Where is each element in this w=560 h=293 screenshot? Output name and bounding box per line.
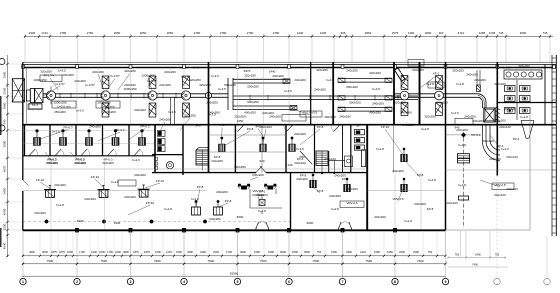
svg-text:605: 605 xyxy=(341,31,346,35)
toilet stalls xyxy=(505,80,531,120)
staircase 2 xyxy=(300,151,328,174)
svg-text:1: 1 xyxy=(22,280,24,284)
svg-text:FP-6.3: FP-6.3 xyxy=(115,128,124,132)
svg-text:320x200: 320x200 xyxy=(494,82,506,86)
svg-text:6000: 6000 xyxy=(240,250,246,254)
right edge hatched wall xyxy=(552,55,556,236)
double door bottom wall 2 xyxy=(338,222,352,231)
column dots on dashed line xyxy=(45,220,207,223)
svg-text:FP-8: FP-8 xyxy=(342,177,349,181)
svg-text:1560: 1560 xyxy=(2,87,6,94)
svg-text:320x250: 320x250 xyxy=(234,115,246,119)
svg-text:h+2.8: h+2.8 xyxy=(458,143,466,147)
wall x350 xyxy=(350,125,352,173)
svg-text:h+2.8: h+2.8 xyxy=(376,147,384,151)
vertical pipe with symbols right wing xyxy=(446,132,481,228)
svg-text:750: 750 xyxy=(428,250,433,254)
branch ducts with grille ends xyxy=(228,78,418,110)
svg-text:3050: 3050 xyxy=(114,31,121,35)
svg-text:1500: 1500 xyxy=(213,250,219,254)
svg-text:h+2.8: h+2.8 xyxy=(56,203,64,207)
right lower construction lines xyxy=(367,173,445,230)
svg-text:2440: 2440 xyxy=(297,31,304,35)
svg-text:240x200: 240x200 xyxy=(314,88,326,92)
svg-text:h+3.5: h+3.5 xyxy=(326,78,334,82)
svg-text:240x200: 240x200 xyxy=(206,101,218,105)
svg-text:240x200: 240x200 xyxy=(466,73,478,77)
corridor main supply duct xyxy=(43,93,209,99)
svg-text:2980: 2980 xyxy=(2,102,6,109)
svg-text:2400: 2400 xyxy=(200,250,206,254)
svg-text:240x200: 240x200 xyxy=(400,111,412,115)
top dimension numbers xyxy=(29,31,548,35)
svg-text:1980: 1980 xyxy=(2,71,6,78)
svg-text:250x200: 250x200 xyxy=(54,110,66,114)
svg-text:240x120: 240x120 xyxy=(324,157,336,161)
svg-text:240x200: 240x200 xyxy=(102,161,114,165)
svg-text:240x200: 240x200 xyxy=(159,83,171,87)
building top exterior wall xyxy=(23,62,556,67)
lower area dashed line xyxy=(23,221,290,223)
svg-text:FP-10: FP-10 xyxy=(36,178,45,182)
svg-text:1205: 1205 xyxy=(489,31,496,35)
svg-text:h+2.8: h+2.8 xyxy=(520,115,528,119)
svg-text:240x200: 240x200 xyxy=(412,68,424,72)
inline duct fan fan 2 xyxy=(101,76,110,117)
svg-text:h+2.8: h+2.8 xyxy=(421,127,429,131)
svg-text:240x200: 240x200 xyxy=(252,173,264,177)
boxed labels xyxy=(28,60,514,208)
svg-text:2: 2 xyxy=(76,280,78,284)
svg-text:6000: 6000 xyxy=(307,221,314,225)
svg-text:2780: 2780 xyxy=(194,31,201,35)
svg-text:240x200: 240x200 xyxy=(456,128,468,132)
svg-text:320x250: 320x250 xyxy=(199,83,211,87)
elbow duct corridor right wing xyxy=(446,94,487,108)
svg-text:240x120: 240x120 xyxy=(489,157,501,161)
svg-text:4060: 4060 xyxy=(520,31,527,35)
wall C lower xyxy=(290,173,292,231)
svg-text:240x200: 240x200 xyxy=(46,161,58,165)
lower-left construction lines xyxy=(51,158,105,229)
svg-text:2690: 2690 xyxy=(425,31,432,35)
svg-text:h+3.57: h+3.57 xyxy=(110,74,120,78)
partition light mid xyxy=(261,125,263,173)
vertical drop above duct end xyxy=(477,70,481,92)
svg-text:240x200: 240x200 xyxy=(54,183,66,187)
svg-text:3050: 3050 xyxy=(167,31,174,35)
left exterior wall xyxy=(23,62,29,230)
minor bottom dimension numbers xyxy=(29,250,433,254)
mid room shelf lines xyxy=(209,135,287,152)
ceiling diffusers lower mid room xyxy=(238,184,277,208)
inline duct fan fan 4 xyxy=(181,76,190,117)
svg-text:240x200: 240x200 xyxy=(339,115,351,119)
main wall A xyxy=(208,62,210,172)
top dimension line with ticks xyxy=(24,34,553,38)
room row light lines xyxy=(23,131,155,144)
svg-text:500x320: 500x320 xyxy=(346,85,358,89)
svg-text:FP-8: FP-8 xyxy=(317,125,324,129)
svg-text:FP-4: FP-4 xyxy=(513,137,520,141)
mid horizontal wall xyxy=(152,172,367,174)
floor units lower-mid xyxy=(192,200,223,215)
doors on corridor wall xyxy=(235,125,340,132)
svg-text:2780: 2780 xyxy=(247,31,254,35)
svg-text:1440: 1440 xyxy=(269,69,276,73)
svg-text:6530: 6530 xyxy=(304,250,310,254)
corridor construction lines xyxy=(77,68,289,124)
branch drop with fan at x=439 xyxy=(435,76,444,116)
svg-text:240x120: 240x120 xyxy=(494,193,506,197)
diagonal fan unit xyxy=(395,68,406,81)
svg-text:4940: 4940 xyxy=(2,242,6,249)
svg-text:h+2.8: h+2.8 xyxy=(164,207,172,211)
svg-text:4: 4 xyxy=(183,280,185,284)
svg-text:240x120: 240x120 xyxy=(504,107,516,111)
svg-text:320x250: 320x250 xyxy=(424,115,436,119)
right wing bottom extension lines xyxy=(461,231,491,257)
svg-text:940: 940 xyxy=(2,119,6,124)
svg-text:4870: 4870 xyxy=(2,165,6,172)
svg-text:240x200: 240x200 xyxy=(436,101,448,105)
svg-text:1744: 1744 xyxy=(41,31,48,35)
svg-text:7400: 7400 xyxy=(472,263,478,267)
svg-text:4854: 4854 xyxy=(365,31,372,35)
svg-text:2980: 2980 xyxy=(2,140,6,147)
svg-text:FP-6.3: FP-6.3 xyxy=(471,133,480,137)
svg-text:240x200: 240x200 xyxy=(62,73,74,77)
svg-text:1700: 1700 xyxy=(226,250,232,254)
annotation text labels xyxy=(32,64,530,225)
svg-text:320x250: 320x250 xyxy=(244,74,256,78)
svg-text:L=3.5: L=3.5 xyxy=(58,69,66,73)
svg-text:1500: 1500 xyxy=(331,250,337,254)
svg-text:240x120: 240x120 xyxy=(506,187,518,191)
svg-text:FP-10: FP-10 xyxy=(146,201,155,205)
svg-text:1500: 1500 xyxy=(176,250,182,254)
svg-text:2400: 2400 xyxy=(346,250,352,254)
svg-text:JY: JY xyxy=(356,124,360,128)
svg-text:400: 400 xyxy=(439,31,444,35)
svg-text:VRV-2.5: VRV-2.5 xyxy=(494,183,505,187)
svg-text:1500: 1500 xyxy=(67,250,73,254)
svg-text:XF-1: XF-1 xyxy=(32,103,39,107)
fan coil units mid rooms xyxy=(219,137,296,152)
double door bottom wall 1 xyxy=(255,222,269,231)
branch drop with fan at x=404.5 xyxy=(400,76,409,116)
svg-text:240x200: 240x200 xyxy=(346,69,358,73)
bottom exterior wall xyxy=(23,229,446,231)
svg-text:1875: 1875 xyxy=(59,250,65,254)
duct junction damper xyxy=(205,92,211,98)
svg-text:1050: 1050 xyxy=(237,119,244,123)
svg-text:7500: 7500 xyxy=(260,259,267,263)
wall at grid 7 xyxy=(342,125,344,173)
svg-text:7: 7 xyxy=(342,280,344,284)
svg-text:5000: 5000 xyxy=(237,215,244,219)
svg-text:9: 9 xyxy=(445,280,447,284)
lower area ceiling line xyxy=(23,169,367,191)
svg-text:1500: 1500 xyxy=(292,250,298,254)
svg-text:2575: 2575 xyxy=(392,31,399,35)
svg-text:FP-8: FP-8 xyxy=(247,127,254,131)
svg-text:h+3.5: h+3.5 xyxy=(296,147,304,151)
svg-text:4295: 4295 xyxy=(187,250,193,254)
svg-text:1490: 1490 xyxy=(408,31,415,35)
svg-text:400x250: 400x250 xyxy=(244,111,256,115)
svg-text:4500: 4500 xyxy=(2,208,6,215)
svg-text:240x200: 240x200 xyxy=(216,190,228,194)
svg-text:h+3.8: h+3.8 xyxy=(456,82,464,86)
air handling unit AHU-1 xyxy=(27,89,44,109)
svg-text:h+3.57: h+3.57 xyxy=(85,83,95,87)
inline duct fan fan 3 xyxy=(148,76,157,117)
svg-text:240x200: 240x200 xyxy=(392,169,404,173)
svg-text:1878: 1878 xyxy=(144,250,150,254)
room doors xyxy=(29,149,143,156)
svg-text:240x200: 240x200 xyxy=(34,211,46,215)
svg-text:FP-6.3: FP-6.3 xyxy=(140,125,149,129)
svg-text:240x120: 240x120 xyxy=(446,201,458,205)
svg-text:500x250: 500x250 xyxy=(224,83,236,87)
svg-text:8: 8 xyxy=(394,280,396,284)
svg-text:240x200: 240x200 xyxy=(414,202,426,206)
svg-text:240x200: 240x200 xyxy=(346,187,358,191)
svg-text:5: 5 xyxy=(237,280,239,284)
svg-text:240x200: 240x200 xyxy=(260,125,272,129)
svg-text:240x200: 240x200 xyxy=(372,102,384,106)
column marks on top wall xyxy=(22,65,556,69)
small room partition walls xyxy=(23,125,155,156)
svg-text:XF-1 P=...: XF-1 P=... xyxy=(43,74,57,78)
equipment lower mid xyxy=(250,194,282,214)
svg-text:1500: 1500 xyxy=(2,223,6,230)
svg-text:1500: 1500 xyxy=(413,250,419,254)
svg-text:1500: 1500 xyxy=(254,250,260,254)
left dimension numbers xyxy=(2,71,6,249)
svg-text:81960: 81960 xyxy=(230,272,239,276)
stairwell 2 walls xyxy=(315,125,329,173)
svg-text:320x200: 320x200 xyxy=(494,119,506,123)
svg-text:8236: 8236 xyxy=(280,250,286,254)
svg-text:FP-8: FP-8 xyxy=(417,173,424,177)
svg-text:1285: 1285 xyxy=(479,31,486,35)
svg-text:3936: 3936 xyxy=(114,221,121,225)
lavatory counter with basins xyxy=(504,70,542,79)
svg-text:h+2.6: h+2.6 xyxy=(52,130,60,134)
svg-text:1500: 1500 xyxy=(374,250,380,254)
svg-text:240x200: 240x200 xyxy=(464,115,476,119)
light partition below fan room xyxy=(393,125,395,173)
svg-text:240x120: 240x120 xyxy=(482,139,494,143)
svg-text:3406: 3406 xyxy=(29,31,36,35)
svg-text:2400: 2400 xyxy=(475,253,481,257)
svg-text:400x250: 400x250 xyxy=(369,111,381,115)
svg-text:7500: 7500 xyxy=(312,259,319,263)
wall D xyxy=(366,125,368,231)
svg-text:VRV-2.5: VRV-2.5 xyxy=(346,201,357,205)
svg-text:1000x250: 1000x250 xyxy=(141,74,155,78)
svg-text:h+2.8: h+2.8 xyxy=(428,178,436,182)
svg-text:500x320: 500x320 xyxy=(349,101,361,105)
wall B upper xyxy=(234,125,236,173)
svg-text:1875: 1875 xyxy=(133,250,139,254)
svg-text:750: 750 xyxy=(455,253,460,257)
svg-text:FP-6.3: FP-6.3 xyxy=(63,126,72,130)
grid bubbles xyxy=(20,278,449,284)
duct drop near stair xyxy=(171,97,175,124)
fan room walls xyxy=(333,62,394,124)
svg-text:h+2.8: h+2.8 xyxy=(258,209,266,213)
svg-text:1700: 1700 xyxy=(79,250,85,254)
svg-text:h+3.5: h+3.5 xyxy=(284,89,292,93)
double door mid wall xyxy=(256,166,266,173)
svg-text:320x250: 320x250 xyxy=(394,101,406,105)
corridor duct right section xyxy=(394,94,446,98)
duct segment to riser xyxy=(212,94,229,98)
major bottom dimension line 7500s xyxy=(22,259,447,265)
svg-text:240x120: 240x120 xyxy=(294,161,306,165)
fan room ducts xyxy=(338,78,392,111)
svg-text:7500: 7500 xyxy=(100,259,107,263)
svg-text:2750: 2750 xyxy=(87,31,94,35)
wall between fan room and wing xyxy=(419,62,421,124)
svg-text:5970: 5970 xyxy=(244,69,251,73)
svg-text:FP-4: FP-4 xyxy=(497,144,504,148)
svg-text:1200: 1200 xyxy=(91,250,97,254)
svg-text:320x250: 320x250 xyxy=(184,114,196,118)
wall hatch right of riser xyxy=(496,107,500,122)
mid block partition walls xyxy=(152,125,183,175)
svg-text:400x250: 400x250 xyxy=(324,115,336,119)
svg-text:7500: 7500 xyxy=(365,259,372,263)
svg-text:1700: 1700 xyxy=(107,250,113,254)
svg-text:320x250: 320x250 xyxy=(452,69,464,73)
right wing light lines xyxy=(446,170,553,230)
svg-text:FP-10: FP-10 xyxy=(156,179,165,183)
svg-text:h+2.8: h+2.8 xyxy=(404,219,412,223)
svg-text:FP-8: FP-8 xyxy=(427,207,434,211)
svg-text:7500: 7500 xyxy=(154,259,161,263)
svg-text:h+3.5: h+3.5 xyxy=(218,87,226,91)
svg-text:h+3.5: h+3.5 xyxy=(76,109,84,113)
svg-text:9450: 9450 xyxy=(2,187,6,194)
svg-text:7500: 7500 xyxy=(47,259,54,263)
svg-text:440: 440 xyxy=(287,163,292,167)
right wing vertical light line xyxy=(529,115,531,230)
svg-text:2780: 2780 xyxy=(273,31,280,35)
large radius duct elbow lower xyxy=(482,125,500,161)
svg-text:1000x250: 1000x250 xyxy=(123,87,137,91)
shower trapezoid toilet xyxy=(521,121,534,139)
svg-text:FP-8: FP-8 xyxy=(197,185,204,189)
svg-text:320x250: 320x250 xyxy=(316,68,328,72)
svg-text:240x200: 240x200 xyxy=(89,125,101,129)
svg-text:240x200: 240x200 xyxy=(329,194,341,198)
svg-text:240x200: 240x200 xyxy=(134,173,146,177)
svg-text:h+3.57: h+3.57 xyxy=(55,82,65,86)
svg-text:745: 745 xyxy=(499,31,504,35)
svg-text:240: 240 xyxy=(193,66,198,70)
svg-text:320x200: 320x200 xyxy=(124,69,136,73)
svg-text:500x250: 500x250 xyxy=(234,165,246,169)
wall over corridor xyxy=(310,62,312,124)
svg-text:FP-8: FP-8 xyxy=(225,199,232,203)
svg-text:940: 940 xyxy=(259,159,264,163)
svg-text:FP-10: FP-10 xyxy=(91,175,100,179)
svg-text:500x250: 500x250 xyxy=(247,100,259,104)
svg-text:1500: 1500 xyxy=(155,250,161,254)
svg-text:240x200: 240x200 xyxy=(124,195,136,199)
svg-text:240x200: 240x200 xyxy=(211,159,223,163)
svg-text:240x200: 240x200 xyxy=(294,132,306,136)
left grid bubbles half visible xyxy=(0,59,5,132)
fan coil units lower rooms xyxy=(310,148,407,192)
svg-text:3936: 3936 xyxy=(77,219,84,223)
svg-text:320x250: 320x250 xyxy=(189,78,201,82)
outdoor unit box top-left xyxy=(12,79,24,102)
svg-text:1500: 1500 xyxy=(99,250,105,254)
svg-text:3936: 3936 xyxy=(123,250,129,254)
svg-text:h+2.8: h+2.8 xyxy=(331,207,339,211)
svg-text:2400: 2400 xyxy=(399,250,405,254)
svg-text:1216: 1216 xyxy=(166,250,172,254)
svg-text:240x200: 240x200 xyxy=(92,70,104,74)
svg-text:240x200: 240x200 xyxy=(134,108,146,112)
svg-text:FP-10: FP-10 xyxy=(381,125,390,129)
svg-text:745: 745 xyxy=(543,31,548,35)
svg-text:240x200: 240x200 xyxy=(402,123,414,127)
svg-text:240x200: 240x200 xyxy=(296,177,308,181)
svg-text:240x200: 240x200 xyxy=(74,161,86,165)
left dimension line xyxy=(4,55,22,257)
svg-text:750: 750 xyxy=(317,250,322,254)
inline duct fan fan 1 xyxy=(46,87,55,105)
svg-text:440: 440 xyxy=(219,123,224,127)
svg-text:500x250: 500x250 xyxy=(247,85,259,89)
svg-text:2400: 2400 xyxy=(115,250,121,254)
svg-text:240x200: 240x200 xyxy=(164,70,176,74)
minor bottom dimension line xyxy=(22,231,506,258)
corridor bottom wall xyxy=(23,124,556,126)
svg-text:240x200: 240x200 xyxy=(294,78,306,82)
wall E right wing xyxy=(445,62,447,230)
svg-text:240x200: 240x200 xyxy=(269,115,281,119)
svg-text:3: 3 xyxy=(130,280,132,284)
svg-text:750: 750 xyxy=(495,253,500,257)
svg-text:7500: 7500 xyxy=(417,259,424,263)
svg-text:2780: 2780 xyxy=(220,31,227,35)
svg-text:320x200: 320x200 xyxy=(104,110,116,114)
svg-text:h+3.5: h+3.5 xyxy=(181,75,189,79)
equipment stack left of stair xyxy=(158,130,166,151)
svg-text:4940: 4940 xyxy=(29,250,35,254)
wc fixtures mid block xyxy=(155,158,174,170)
label leader lines xyxy=(40,74,500,216)
svg-text:940: 940 xyxy=(195,124,200,128)
svg-text:7500: 7500 xyxy=(207,259,214,263)
svg-text:320x200: 320x200 xyxy=(369,71,381,75)
wall C upper xyxy=(285,125,287,173)
svg-text:1216: 1216 xyxy=(360,250,366,254)
svg-text:h+3.5: h+3.5 xyxy=(372,87,380,91)
svg-text:240x200: 240x200 xyxy=(272,74,284,78)
svg-text:240x200: 240x200 xyxy=(472,119,484,123)
svg-text:240x200: 240x200 xyxy=(74,79,86,83)
left edge crop marks xyxy=(0,96,2,247)
svg-text:XF-2: XF-2 xyxy=(433,72,440,76)
